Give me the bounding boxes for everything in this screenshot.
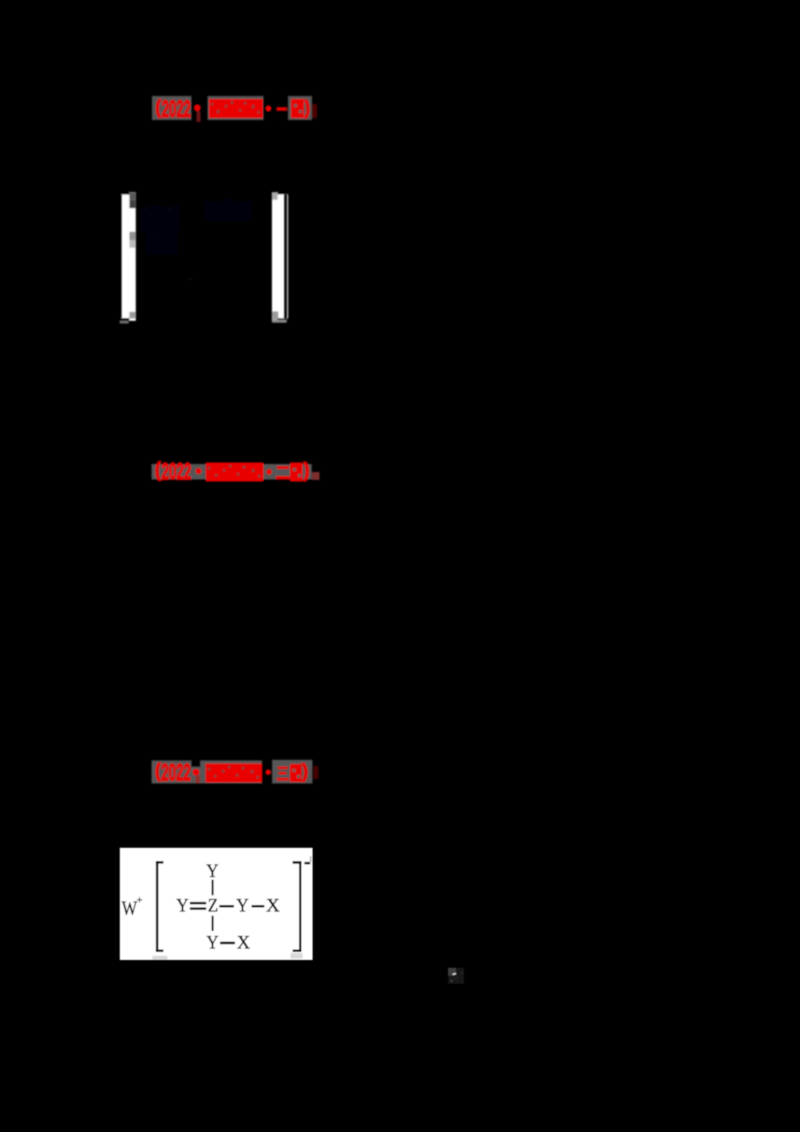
mo char blob bbox=[290, 463, 303, 482]
citation line 2 (red highlighted text) bbox=[140, 450, 350, 500]
notches in blobs bbox=[208, 465, 260, 477]
right below-serif gray band bbox=[272, 320, 287, 323]
char blobs bbox=[206, 764, 263, 783]
svg-text:): ) bbox=[304, 460, 310, 482]
left bar gray patch 1 bbox=[129, 193, 135, 200]
highlight patch 2 bbox=[272, 760, 312, 784]
faint trailing mark bbox=[314, 766, 319, 779]
red dot sep 2 bbox=[265, 106, 271, 112]
bond Z-Y dash bbox=[219, 905, 234, 907]
svg-text:2022: 2022 bbox=[162, 96, 191, 123]
gray tick above minus bbox=[310, 856, 312, 862]
citation line 3 (red highlighted text) bbox=[140, 750, 350, 795]
mo char blob bbox=[291, 99, 304, 118]
right bracket top serif notch bbox=[278, 192, 288, 195]
svg-text:CH₃: CH₃ bbox=[182, 292, 212, 311]
char blobs bbox=[206, 463, 264, 482]
highlight patch 1 bbox=[152, 760, 263, 783]
right bracket outer white sliver bbox=[287, 195, 288, 319]
notches in blobs bbox=[208, 766, 259, 778]
faint trailing mark bbox=[313, 104, 318, 118]
minus superscript bbox=[304, 862, 310, 864]
svg-text:2022: 2022 bbox=[162, 459, 192, 486]
san char bars bbox=[277, 767, 289, 781]
highlight patch C bbox=[288, 96, 312, 120]
white speck bbox=[451, 981, 453, 982]
left bracket bottom serif notch bbox=[120, 318, 130, 321]
small icon bbox=[444, 963, 470, 989]
left square bracket bbox=[156, 861, 164, 952]
white streak bbox=[452, 973, 456, 975]
er char blob bbox=[277, 466, 289, 469]
red dot sep 1 bbox=[193, 769, 200, 776]
icon lower body bbox=[448, 976, 464, 984]
red dot sep 1 bbox=[196, 468, 202, 474]
svg-text:Y: Y bbox=[176, 896, 189, 917]
icon quadrant dark right bbox=[456, 968, 464, 976]
svg-text:(: ( bbox=[156, 98, 162, 119]
char blob 1 bbox=[209, 99, 223, 118]
dark red stub bbox=[312, 472, 320, 480]
svg-text:2022: 2022 bbox=[161, 760, 191, 787]
red yi bar bbox=[277, 107, 288, 111]
bracketed structure image 1 bbox=[100, 185, 320, 330]
left bar gray patch 2 bbox=[129, 200, 135, 208]
faint c mark bbox=[460, 971, 463, 975]
svg-text:(: ( bbox=[155, 761, 161, 782]
red dot sep 1 bbox=[194, 104, 201, 111]
left bar gray patch 4 bbox=[129, 240, 135, 248]
highlight band bbox=[152, 464, 312, 480]
bond Y-Z vertical bbox=[212, 880, 214, 895]
svg-text:W: W bbox=[122, 898, 138, 920]
red streak under dot bbox=[196, 775, 201, 783]
left bracket top serif notch bbox=[120, 191, 130, 194]
right bracket bottom-left gray patch bbox=[272, 311, 278, 319]
right square bracket bbox=[293, 861, 302, 952]
svg-text:+: + bbox=[137, 895, 143, 906]
red dot sep 2 bbox=[266, 469, 272, 475]
notches in blobs bbox=[211, 101, 260, 113]
left bar gray patch 5 bbox=[129, 312, 135, 319]
red streak under dot bbox=[197, 111, 201, 122]
right bracket top-left gray patch bbox=[272, 193, 278, 200]
icon lower light part bbox=[449, 976, 459, 981]
bond Z-Y vertical lower bbox=[212, 916, 214, 931]
char blob 2 bbox=[223, 99, 237, 118]
left below-serif gray stub bbox=[120, 321, 129, 324]
highlight patch B bbox=[208, 96, 264, 120]
citation line 1 (red highlighted text) bbox=[140, 85, 350, 130]
white background box bbox=[120, 848, 313, 960]
bottom gray patch left bbox=[152, 956, 167, 960]
svg-text:(: ( bbox=[155, 460, 161, 482]
bond Y-X dash bbox=[252, 905, 265, 907]
char blob 3 bbox=[236, 99, 250, 118]
svg-text:Y: Y bbox=[206, 933, 218, 954]
bottom gray patch right bbox=[291, 953, 303, 958]
left bar gray patch 3 bbox=[129, 232, 135, 240]
formula image W+[Y=Z...]- (white box) bbox=[110, 840, 330, 970]
svg-text:X: X bbox=[237, 933, 251, 954]
left bracket white bar bbox=[122, 192, 136, 320]
svg-text:Z: Z bbox=[208, 896, 218, 917]
highlight patch A bbox=[152, 96, 192, 120]
bottom bond dash bbox=[220, 942, 235, 945]
notch over dot bbox=[191, 760, 200, 767]
svg-text:Y: Y bbox=[236, 896, 249, 917]
svg-text:X: X bbox=[266, 896, 280, 917]
mo char blob bbox=[290, 764, 302, 782]
double bond = bbox=[190, 902, 206, 904]
right bracket bottom serif notch bbox=[278, 318, 288, 321]
faint structure strokes bbox=[138, 199, 256, 295]
right bracket white bar bbox=[272, 192, 284, 320]
icon quadrant light gray bbox=[448, 968, 456, 976]
red dot sep 2 bbox=[266, 770, 271, 775]
char blob 4 bbox=[250, 99, 264, 118]
svg-text:): ) bbox=[302, 762, 308, 783]
svg-text:Y: Y bbox=[206, 861, 219, 882]
svg-text:): ) bbox=[305, 98, 311, 119]
